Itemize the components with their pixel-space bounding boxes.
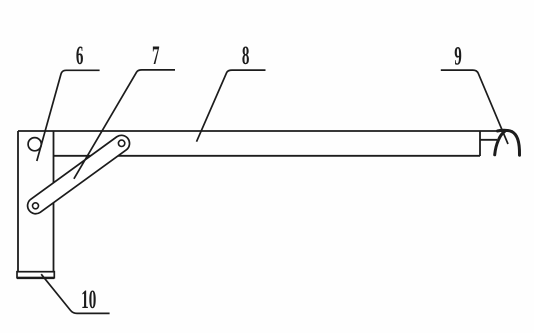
svg-text:8: 8 <box>242 41 250 70</box>
svg-text:9: 9 <box>454 41 462 70</box>
svg-text:10: 10 <box>81 285 96 314</box>
svg-text:6: 6 <box>76 41 84 70</box>
svg-text:7: 7 <box>152 41 160 70</box>
